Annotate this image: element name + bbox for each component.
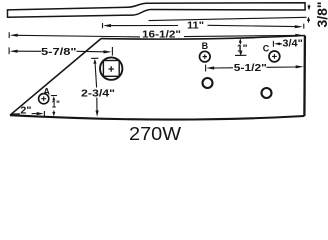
offset reference line after jog (149, 17, 307, 20)
svg-text:1": 1" (52, 99, 60, 111)
plain hole lower-left of B (203, 78, 213, 88)
2-3/4 in dimension (91, 58, 99, 117)
3/4 in dimension at C (273, 41, 281, 47)
svg-text:2": 2" (20, 105, 31, 117)
bolt hole (large, square) (100, 57, 122, 79)
svg-text:1": 1" (237, 42, 248, 54)
svg-text:-3/4": -3/4" (279, 39, 303, 50)
svg-text:C: C (263, 44, 270, 54)
5-1/2 in dimension (206, 65, 304, 72)
hole B (200, 51, 211, 62)
svg-text:11": 11" (187, 20, 204, 32)
blade side view (top): outline with Z-jog (8, 3, 306, 17)
hole A (39, 94, 49, 104)
svg-text:270W: 270W (129, 123, 182, 144)
svg-text:5-7/8": 5-7/8" (41, 46, 77, 58)
1 in dimension at A (51, 96, 57, 117)
svg-text:3/8": 3/8" (314, 2, 328, 28)
plain hole lower-left of C (262, 88, 272, 98)
16-1/2 in dimension line (9, 32, 303, 38)
svg-text:B: B (202, 41, 209, 51)
svg-text:2-3/4": 2-3/4" (81, 87, 115, 99)
main plate outline (10, 115, 304, 119)
2 in dimension (11, 111, 44, 117)
3/8 in offset dimension arrows (307, 5, 311, 23)
11 in dimension line (103, 23, 304, 29)
1 in dimension at B (235, 38, 246, 56)
5-7/8 in dimension (9, 47, 112, 56)
svg-text:5-1/2": 5-1/2" (234, 62, 267, 74)
hole C (269, 51, 280, 62)
